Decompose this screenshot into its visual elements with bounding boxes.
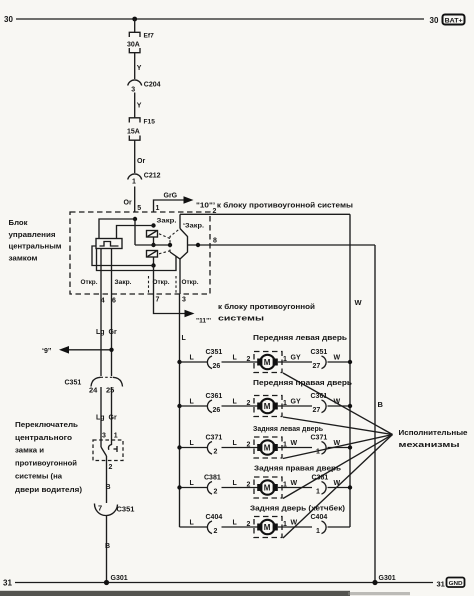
net 11 label to anti-theft system <box>218 303 315 323</box>
svg-text:L: L <box>233 440 238 447</box>
svg-text:L: L <box>190 440 195 447</box>
wire rail30 to fuse Ef7 <box>134 19 136 33</box>
svg-text:C371: C371 <box>206 435 223 442</box>
svg-text:30: 30 <box>4 15 13 24</box>
svg-text:15A: 15A <box>127 129 140 136</box>
svg-text:‘Закр.: ‘Закр. <box>183 223 204 230</box>
wire L row2 to motor <box>222 399 258 408</box>
svg-text:G301: G301 <box>379 575 396 582</box>
svg-text:7: 7 <box>156 297 160 304</box>
wire GY row1 <box>278 355 312 364</box>
node armature pivot <box>168 243 172 247</box>
wire L row4 to motor <box>222 480 258 489</box>
connector C371 pin 2 row3 <box>206 435 223 456</box>
wire GY row2 <box>278 399 312 408</box>
wire L row2 <box>180 399 208 407</box>
svg-text:2: 2 <box>247 356 251 363</box>
svg-text:Переключатель: Переключатель <box>15 420 78 429</box>
svg-text:2: 2 <box>247 400 251 407</box>
wire W row3 to bus <box>328 440 351 448</box>
node L bus row1 <box>177 360 181 364</box>
svg-text:M: M <box>264 523 271 532</box>
wire coil K2 to lower junction <box>153 257 155 266</box>
svg-text:Откр.: Откр. <box>182 279 199 286</box>
svg-text:L: L <box>233 480 238 487</box>
svg-text:"10"’ к блоку противоугонной с: "10"’ к блоку противоугонной системы <box>196 202 353 210</box>
control unit U1 dashed enclosure <box>70 212 210 294</box>
bus 30 top power rail <box>16 18 424 20</box>
bus B from pin8 to ground <box>375 245 384 583</box>
svg-text:Задняя левая дверь: Задняя левая дверь <box>253 426 324 433</box>
svg-text:B: B <box>105 543 110 550</box>
svg-text:замка и: замка и <box>15 446 44 455</box>
scan artifact band <box>0 591 350 596</box>
wire pin1 branch to timer <box>117 226 154 239</box>
wire coil link <box>153 237 155 245</box>
svg-text:1: 1 <box>114 433 118 440</box>
svg-text:C404: C404 <box>311 514 328 521</box>
svg-text:L: L <box>233 399 238 406</box>
wire L row5 to motor <box>222 520 258 529</box>
svg-text:L: L <box>190 355 195 362</box>
wire coil line down to pin7 <box>153 266 155 295</box>
pointer line actuator row2 <box>283 417 393 435</box>
svg-text:C351: C351 <box>206 349 223 356</box>
svg-text:Lg: Lg <box>96 329 105 336</box>
fuse Ef7 30A <box>127 32 154 52</box>
armature changeover switch <box>170 214 188 259</box>
wire L row4 <box>180 480 208 488</box>
svg-text:31: 31 <box>3 579 12 588</box>
svg-text:Or: Or <box>137 158 145 165</box>
wire common to armature pivot <box>135 244 172 246</box>
svg-text:Передняя левая дверь: Передняя левая дверь <box>253 335 348 342</box>
pointer line actuator row4 <box>283 435 393 499</box>
node lower junction <box>151 263 155 267</box>
svg-text:C351: C351 <box>117 505 135 514</box>
wire Y fuse Ef7 to connector C204 <box>135 53 142 79</box>
svg-text:B: B <box>378 400 384 409</box>
wire Or fuse F15 to connector C212 <box>135 140 146 173</box>
svg-text:24: 24 <box>89 386 98 395</box>
terminal function labels <box>81 279 199 286</box>
text label central locking control unit <box>9 218 62 263</box>
svg-text:2: 2 <box>247 482 251 489</box>
svg-text:Задняя дверь (хетчбек): Задняя дверь (хетчбек) <box>250 505 345 513</box>
svg-text:C351: C351 <box>65 380 82 387</box>
wire W row3 mid <box>278 440 312 449</box>
wire B to ground <box>105 516 110 583</box>
svg-text:30: 30 <box>430 16 439 25</box>
connector C361 pin 26 row2 <box>206 393 223 414</box>
svg-text:L: L <box>190 520 195 527</box>
ground G301 right node <box>372 575 395 585</box>
svg-text:GY: GY <box>291 399 301 406</box>
svg-text:W: W <box>334 480 341 487</box>
wire L row5 <box>180 520 208 528</box>
svg-text:Y: Y <box>137 65 142 72</box>
wire L row1 to motor <box>222 355 258 364</box>
svg-text:BAT+: BAT+ <box>445 17 463 24</box>
svg-text:Y: Y <box>137 103 142 110</box>
svg-text:Откр.: Откр. <box>81 279 98 286</box>
wire pin8 output to B bus <box>188 238 375 248</box>
wire armature bottom loop B to timer <box>97 249 177 271</box>
motor M5 hatch door lock actuator <box>254 517 282 538</box>
svg-text:L: L <box>190 399 195 406</box>
svg-text:Gr: Gr <box>109 415 117 422</box>
svg-text:W: W <box>355 298 363 307</box>
node pin5 junction <box>133 217 137 221</box>
svg-text:центральным: центральным <box>9 242 62 251</box>
wire L row3 to motor <box>222 440 258 449</box>
svg-text:механизмы: механизмы <box>399 440 460 449</box>
svg-text:27: 27 <box>313 407 321 414</box>
svg-text:2: 2 <box>213 208 217 215</box>
connector C381 pin 2 row4 <box>204 475 221 496</box>
net BAT+ badge <box>443 15 465 25</box>
timer U1a pulse module <box>96 239 122 249</box>
node W bus row2 <box>348 404 352 408</box>
svg-text:Lg: Lg <box>96 415 105 422</box>
svg-text:B: B <box>106 484 111 491</box>
svg-text:замком: замком <box>9 254 38 263</box>
pin number labels under box <box>101 297 186 305</box>
svg-text:GrG: GrG <box>164 193 178 200</box>
svg-text:C361: C361 <box>206 393 223 400</box>
node junction on rail 30 <box>132 17 137 22</box>
svg-text:M: M <box>264 358 271 367</box>
relay coil K1 close <box>147 231 158 238</box>
svg-text:C371: C371 <box>311 435 328 442</box>
connector C381 pin 1 row4 <box>312 475 329 496</box>
svg-text:5: 5 <box>137 205 141 212</box>
svg-text:8: 8 <box>213 238 217 245</box>
svg-text:центрального: центрального <box>15 433 72 442</box>
wire Gr from pin6 <box>111 249 113 377</box>
wire W row5 to bus corner <box>328 526 351 528</box>
svg-text:1: 1 <box>132 179 136 186</box>
svg-text:C212: C212 <box>144 173 161 180</box>
svg-text:2: 2 <box>247 442 251 449</box>
svg-text:26: 26 <box>213 407 221 414</box>
svg-text:M: M <box>264 402 271 411</box>
node pin1 junction <box>151 223 155 227</box>
relay coil K2 open <box>147 251 158 258</box>
svg-text:G301: G301 <box>111 575 128 582</box>
svg-text:2: 2 <box>214 449 218 456</box>
switch S1 lever contacts <box>101 440 117 456</box>
node coil midpoint junction <box>151 243 155 247</box>
motor M3 rear left door lock actuator <box>254 437 282 458</box>
wire W row1 to bus <box>328 355 351 363</box>
pointer line actuator row5 <box>283 435 393 539</box>
text label actuator mechanisms <box>399 428 468 449</box>
svg-text:2: 2 <box>109 464 113 471</box>
svg-text:W: W <box>291 440 298 447</box>
svg-text:2: 2 <box>214 528 218 535</box>
svg-text:L: L <box>182 335 187 342</box>
node W bus row3 <box>348 445 352 449</box>
svg-text:F15: F15 <box>144 119 156 126</box>
bus W from pin2 <box>350 214 363 527</box>
fuse F15 15A <box>127 118 155 140</box>
connector C404 pin 2 row5 <box>206 514 223 535</box>
wire W row5 mid <box>278 520 312 529</box>
wire pin5 down to armature common <box>134 219 136 245</box>
connector C212 pin 1 <box>128 173 161 186</box>
node L bus row4 <box>177 485 181 489</box>
pointer line actuator row3 <box>283 435 393 459</box>
wire L row1 <box>180 355 208 363</box>
svg-text:Блок: Блок <box>9 218 28 227</box>
svg-text:W: W <box>291 480 298 487</box>
svg-text:Исполнительные: Исполнительные <box>399 428 468 437</box>
node W bus row4 <box>348 485 352 489</box>
motor M1 front left door lock actuator <box>254 352 282 373</box>
pointer line actuator row1 <box>283 373 393 435</box>
svg-text:Or: Or <box>124 200 132 207</box>
svg-text:1: 1 <box>316 528 320 535</box>
wire GrG from pin 1 with arrow to anti-theft unit node 10 <box>154 193 194 213</box>
svg-text:1: 1 <box>316 449 320 456</box>
svg-text:C381: C381 <box>204 475 221 482</box>
svg-text:6: 6 <box>112 298 116 305</box>
svg-text:M: M <box>264 444 271 453</box>
wire arrow to node 9 <box>42 346 114 355</box>
svg-text:26: 26 <box>213 363 221 370</box>
svg-text:системы: системы <box>218 316 264 323</box>
svg-text:1: 1 <box>156 205 160 212</box>
connector C361 pin 27 row2 <box>311 393 328 414</box>
svg-text:3: 3 <box>182 297 186 304</box>
svg-text:Закр.: Закр. <box>115 279 132 286</box>
svg-text:W: W <box>334 355 341 362</box>
svg-text:‘9’’: ‘9’’ <box>42 348 52 355</box>
wire pin2 output to W bus <box>180 208 350 215</box>
separator dashes in terminal row <box>148 276 150 293</box>
connector C371 pin 1 row3 <box>311 435 328 456</box>
svg-text:C404: C404 <box>206 514 223 521</box>
wire armature to pin3 <box>179 258 181 294</box>
svg-text:C351: C351 <box>311 349 328 356</box>
svg-text:Gr: Gr <box>109 329 117 336</box>
switch S1 dashed enclosure <box>93 440 123 461</box>
svg-text:Откр.: Откр. <box>153 279 170 286</box>
wire Lg from pin4 <box>100 249 102 377</box>
svg-text:системы (на: системы (на <box>15 472 63 481</box>
wire W row4 mid <box>278 480 312 489</box>
wire W row2 to bus <box>328 399 351 407</box>
node L bus row2 <box>177 404 181 408</box>
svg-text:к блоку противоугонной: к блоку противоугонной <box>218 303 315 311</box>
wire Or connector C212 to control unit pin 5 <box>124 187 142 213</box>
connector C351 pin 7 lower <box>94 504 134 516</box>
bus L from pin3 <box>180 294 187 527</box>
wire pin7 with arrow to anti-theft node 11 <box>154 294 212 325</box>
wire Y connector C204 to fuse F15 <box>135 93 142 119</box>
node W bus row1 <box>348 360 352 364</box>
wire W row4 to bus <box>328 480 351 488</box>
bus 31 bottom ground rail <box>15 582 433 584</box>
svg-text:31: 31 <box>437 580 445 589</box>
svg-text:30A: 30A <box>127 42 140 49</box>
ground G301 left node <box>104 575 128 585</box>
svg-text:управления: управления <box>9 230 56 239</box>
svg-text:L: L <box>233 520 238 527</box>
svg-text:M: M <box>264 484 271 493</box>
svg-text:L: L <box>190 480 195 487</box>
wire feedback loop A to timer left <box>92 246 154 266</box>
wire L row3 <box>180 440 208 448</box>
motor M4 rear right door lock actuator <box>254 477 282 498</box>
svg-text:25: 25 <box>106 386 114 395</box>
svg-text:2: 2 <box>247 521 251 528</box>
mechanical link coil K2 to armature <box>159 251 171 254</box>
text label driver door switch <box>15 420 83 494</box>
connector C204 pin 3 <box>128 80 161 94</box>
node L bus row3 <box>177 445 181 449</box>
svg-text:3: 3 <box>131 87 135 94</box>
mechanical link coil K1 to armature <box>159 234 171 239</box>
svg-text:двери водителя): двери водителя) <box>15 485 83 494</box>
svg-text:3: 3 <box>102 433 106 440</box>
svg-text:"11"’: "11"’ <box>196 318 211 325</box>
connector C351 pin 27 row1 <box>311 349 328 370</box>
motor M2 front right door lock actuator <box>254 396 282 417</box>
svg-text:GND: GND <box>449 581 463 587</box>
wire Gr to switch pin1 <box>111 387 113 440</box>
svg-text:7: 7 <box>98 504 102 513</box>
svg-text:L: L <box>233 355 238 362</box>
svg-text:27: 27 <box>313 363 321 370</box>
connector C404 pin 1 row5 <box>311 514 328 535</box>
svg-text:GY: GY <box>291 355 301 362</box>
svg-text:1: 1 <box>316 489 320 496</box>
svg-text:противоугонной: противоугонной <box>15 459 77 468</box>
svg-text:C204: C204 <box>144 82 161 89</box>
wire pin5 branch to timer <box>99 219 135 239</box>
connector C351 pins 24 25 <box>65 377 123 394</box>
wire Lg to switch pin3 <box>100 387 102 440</box>
svg-text:Закр.: Закр. <box>157 218 177 225</box>
wire B from switch pin2 <box>106 456 111 503</box>
net GND badge <box>447 578 465 588</box>
svg-text:2: 2 <box>214 489 218 496</box>
connector C351 pin 26 row1 <box>206 349 223 370</box>
svg-text:Ef7: Ef7 <box>144 33 155 40</box>
